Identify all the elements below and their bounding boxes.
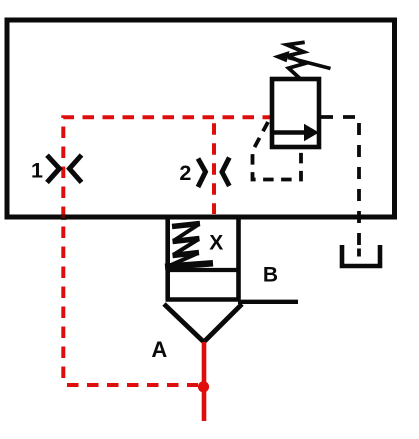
relief valve U1 body: [272, 79, 319, 147]
tank symbol: [342, 245, 380, 266]
pilot line (red dashed) from node at orifice 1 to relief valve and down to node A junction: [63, 117, 270, 385]
port A line (red): [202, 342, 207, 421]
cartridge valve right wall: [236, 215, 241, 300]
drain line last dash inside tank: [357, 249, 361, 257]
adjustment arrow across spring: [288, 58, 331, 69]
relief valve flow arrow: [272, 130, 305, 135]
svg-text:A: A: [151, 337, 167, 362]
orifice 2: [198, 158, 229, 188]
spring seat bar: [165, 263, 213, 267]
port B line: [238, 300, 298, 304]
pilot branch (red dashed) through orifice 2 down to chamber X: [212, 117, 216, 214]
chamber divider: [168, 268, 239, 272]
svg-text:X: X: [209, 231, 223, 254]
wire crossing shade where pilot line crosses block edge: [61, 214, 67, 220]
cartridge valve bottom: [166, 297, 241, 302]
relief valve pilot loop (black dashed): [253, 122, 302, 180]
junction node on A line: [198, 381, 209, 392]
cartridge spring coil bar 1: [172, 224, 200, 227]
pilot line (red dashed) bottom run to junction: [63, 383, 198, 387]
cartridge spring diagonal 2: [174, 240, 198, 255]
cartridge spring coil bar 2: [173, 239, 200, 242]
svg-text:2: 2: [179, 161, 191, 185]
svg-text:1: 1: [31, 158, 43, 182]
enclosure box (valve block outline): [7, 20, 395, 217]
cartridge spring diagonal 1: [174, 225, 199, 241]
cartridge spring coil bar 3: [173, 253, 200, 256]
cartridge spring diagonal 3: [170, 254, 197, 266]
poppet cone: [164, 304, 242, 342]
relief valve spring: [287, 42, 305, 79]
svg-text:B: B: [263, 264, 278, 287]
orifice 1: [47, 155, 82, 182]
drain line (black dashed) from relief valve outlet to tank: [321, 117, 359, 246]
cartridge valve left wall: [165, 215, 170, 300]
